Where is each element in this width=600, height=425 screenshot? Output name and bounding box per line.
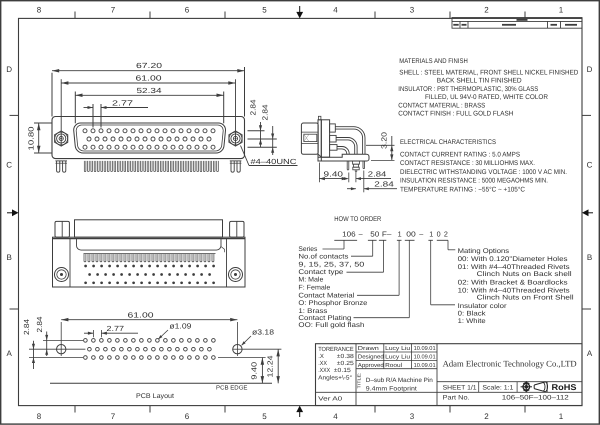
title cell divider	[356, 391, 437, 393]
rear view: pin tail dots row 1 (17)	[84, 265, 87, 268]
front view: left jackscrew #4-40	[55, 131, 68, 146]
svg-text:DIELECTRIC WITHSTANDING VOLT: DIELECTRIC WITHSTANDING VOLTAGE : 1000 V…	[400, 169, 567, 176]
svg-text:10: With #4–40Threaded Rive: 10: With #4–40Threaded Rivets	[458, 287, 571, 294]
svg-text:2.84: 2.84	[374, 180, 394, 189]
svg-text:2.77: 2.77	[112, 98, 133, 107]
rear view: right mounting screw	[229, 268, 243, 282]
svg-text:4: 4	[333, 5, 338, 14]
svg-text:M: Male: M: Male	[298, 277, 323, 284]
side view: clinch nut below board	[353, 161, 360, 164]
side view: insulator body	[321, 120, 329, 157]
front view: D-sub insert outer outline	[74, 123, 226, 153]
rear view: left mounting screw	[55, 268, 69, 282]
svg-text:Contact Material: Contact Material	[298, 293, 355, 300]
front view: contact holes row 1 (17)	[83, 129, 87, 133]
svg-text:MATERIALS AND FINISH: MATERIALS AND FINISH	[399, 58, 468, 65]
svg-text:Drawn: Drawn	[358, 346, 379, 352]
svg-text:6: 6	[185, 412, 190, 421]
svg-text:1: 1	[398, 230, 402, 239]
dim 2.84 rows1-2 (pcb)	[46, 332, 48, 357]
svg-text:6: 6	[185, 5, 190, 14]
svg-text:D–sub R/A Machine Pin: D–sub R/A Machine Pin	[366, 377, 434, 384]
svg-text:10.09.01: 10.09.01	[414, 362, 436, 369]
front view: right boardlock	[231, 161, 234, 172]
dim row extension lines (pcb left)	[43, 339, 83, 341]
svg-text:Adam Electronic Technology Co.: Adam Electronic Technology Co.,LTD	[443, 358, 577, 368]
front view: contact holes row 2 (16)	[87, 137, 91, 141]
names grid lines	[356, 351, 437, 353]
top margin column ticks	[74, 12, 76, 19]
svg-text:ø1.09: ø1.09	[169, 322, 191, 331]
order tree leader: contact plating	[405, 239, 415, 241]
svg-text:3: 3	[410, 5, 415, 14]
svg-text:Ver A0: Ver A0	[318, 396, 343, 403]
svg-text:FILLED, UL 94V-0 RATED, WHITE: FILLED, UL 94V-0 RATED, WHITE COLOR	[425, 94, 548, 101]
side view: bent pin row 2 (middle)	[336, 138, 357, 155]
title block column dividers	[355, 344, 357, 406]
svg-text:D: D	[587, 65, 593, 74]
pcb layout: left hole centerlines	[60, 322, 62, 356]
svg-text:OO: Full gold flash: OO: Full gold flash	[298, 322, 364, 329]
svg-text:10.80: 10.80	[26, 127, 35, 151]
pcb layout: left mounting hole 3.18	[57, 345, 66, 354]
svg-text:1: 1	[559, 412, 564, 421]
svg-text:D: D	[6, 65, 12, 74]
svg-text:5: 5	[262, 5, 267, 14]
svg-text:Clinch Nuts on Front Shell: Clinch Nuts on Front Shell	[477, 294, 575, 301]
pcb layout: right mounting hole 3.18	[233, 345, 242, 354]
side view: jackscrew nut in barrel	[304, 134, 317, 141]
svg-text:O: Phosphor Bronze: O: Phosphor Bronze	[298, 300, 367, 307]
svg-text:00: With 0.120"Diameter Hol: 00: With 0.120"Diameter Holes	[458, 256, 569, 263]
svg-text:F–: F–	[382, 230, 392, 239]
svg-text:67.20: 67.20	[136, 61, 162, 70]
svg-text:TITLE:: TITLE:	[357, 373, 362, 389]
svg-text:.XXX: .XXX	[318, 367, 330, 374]
svg-text:C: C	[6, 161, 12, 170]
svg-text:–: –	[359, 230, 363, 239]
svg-text:2.84: 2.84	[368, 169, 387, 178]
tolerance/ver divider	[316, 391, 357, 393]
svg-text:INSULATOR : PBT THERMOPLASTIC,: INSULATOR : PBT THERMOPLASTIC, 30% GLASS	[398, 86, 538, 93]
dim 52.34 extension lines	[74, 92, 76, 124]
svg-text:2: 2	[484, 5, 489, 14]
svg-text:2: 2	[444, 230, 448, 239]
centering arrow left	[7, 212, 14, 214]
rear view: flange ear dividers	[69, 239, 71, 287]
dim 3.20 extension lines	[366, 144, 395, 146]
svg-text:Angles+\-5°: Angles+\-5°	[318, 374, 353, 381]
svg-text:Scale: 1:1: Scale: 1:1	[482, 384, 513, 391]
svg-text:2.84: 2.84	[248, 100, 257, 116]
front view: contact holes row 3 (17)	[83, 145, 87, 149]
rear view: right jackscrew barrel	[230, 221, 244, 237]
svg-text:–: –	[419, 230, 423, 239]
dim 2.84 rows2-3 (pcb)	[33, 341, 35, 369]
dim 67.20 extension lines	[51, 73, 53, 117]
svg-text:CONTACT FINISH : FULL GOLD: CONTACT FINISH : FULL GOLD FLASH	[398, 111, 513, 118]
dim 9.40 (side view) extension line	[318, 163, 320, 183]
svg-text:50: 50	[370, 230, 379, 239]
rear view: insulator back	[75, 220, 223, 237]
order tree leader: contact type	[379, 239, 386, 241]
dim 67.20	[52, 70, 245, 72]
order tree leader: contact material	[397, 239, 402, 241]
front view: left boardlock	[57, 161, 60, 172]
rear view: pin tail dots row 2 (16)	[88, 273, 91, 276]
order tree leader: mating options	[437, 239, 448, 241]
svg-text:2.84: 2.84	[261, 105, 270, 121]
dim 2.84 row1-row2 extension lines	[248, 130, 265, 132]
rear view: left jackscrew barrel	[55, 221, 69, 237]
svg-text:ELECTRICAL CHARACTERISTICS: ELECTRICAL CHARACTERISTICS	[400, 139, 496, 146]
svg-text:F: Female: F: Female	[298, 285, 330, 292]
svg-text:±0.38: ±0.38	[337, 353, 355, 360]
dim 2.84 row2-row3	[272, 126, 274, 155]
bottom margin column ticks	[74, 406, 76, 413]
dim 3.20	[391, 136, 393, 160]
dim 61.00 (pcb)	[61, 319, 237, 321]
order tree leader: series	[334, 239, 357, 241]
svg-text:Lucy Liu: Lucy Liu	[385, 345, 410, 352]
svg-text:9.40: 9.40	[250, 362, 259, 380]
side view: flange top tab	[318, 116, 321, 120]
svg-text:SHEET 1/1: SHEET 1/1	[443, 384, 477, 391]
svg-text:106–50F–100–112: 106–50F–100–112	[502, 395, 569, 402]
svg-text:A: A	[7, 349, 13, 358]
svg-text:1: 1	[559, 5, 564, 14]
dim 2.84 pins 1-2 (side view)	[348, 173, 350, 183]
svg-text:PCB Layout: PCB Layout	[136, 393, 174, 400]
dim 2.77 (pcb) extension lines	[92, 330, 94, 337]
dim 9.40 (pcb)	[261, 358, 263, 384]
side view: shell flange plate	[318, 120, 321, 161]
svg-text:7: 7	[111, 5, 116, 14]
centering arrow bottom	[299, 410, 301, 417]
dim 2.84 pins 2-3 (side view)	[363, 171, 365, 193]
svg-text:#4–40UNC: #4–40UNC	[251, 157, 298, 166]
svg-text:1: 1	[429, 230, 433, 239]
rear view: shell back skirt	[76, 239, 221, 251]
svg-text:Part No.: Part No.	[443, 395, 470, 402]
svg-text:PCB EDGE: PCB EDGE	[216, 384, 248, 391]
svg-text:61.00: 61.00	[136, 74, 162, 83]
svg-text:4: 4	[333, 412, 338, 421]
svg-text:Clinch Nuts on Back shell: Clinch Nuts on Back shell	[477, 271, 573, 278]
projection symbol circle	[523, 384, 530, 391]
svg-text:3: 3	[410, 412, 415, 421]
side view: bent pin row 1 (top)	[335, 127, 365, 155]
svg-text:5: 5	[262, 412, 267, 421]
dim 2.77	[84, 107, 94, 109]
svg-text:10.09.01: 10.09.01	[414, 345, 436, 352]
svg-text:2.77: 2.77	[107, 324, 125, 333]
svg-text:No.of contacts: No.of contacts	[298, 254, 349, 261]
svg-text:1: White: 1: White	[458, 318, 486, 325]
dim 61.00 extension lines	[60, 79, 62, 146]
projection symbol cone	[534, 382, 545, 392]
svg-text:TORERANCE: TORERANCE	[318, 346, 354, 353]
svg-text:±0.15: ±0.15	[334, 367, 352, 374]
right margin row ticks	[582, 114, 591, 116]
pcb layout: hole row 2 (16)	[88, 347, 92, 351]
dim 10.80	[38, 123, 40, 153]
svg-text:00: 00	[406, 230, 416, 239]
centering arrow top	[299, 6, 301, 14]
dim 2.84 row2-row3 extension line	[248, 146, 277, 148]
svg-text:CONTACT RESISTANCE : 30 MI: CONTACT RESISTANCE : 30 MILLIOHMS MAX.	[400, 160, 535, 167]
dim 10.80 extension lines	[34, 122, 52, 124]
svg-text:BACK SHELL TIN FINISHED: BACK SHELL TIN FINISHED	[437, 78, 522, 85]
rear view: pin comb strip	[84, 253, 216, 255]
svg-text:01: With #4–40Threaded Rive: 01: With #4–40Threaded Rivets	[458, 264, 571, 271]
svg-text:106: 106	[342, 230, 356, 239]
svg-text:SHELL : STEEL MATERIAL, FRONT: SHELL : STEEL MATERIAL, FRONT SHELL NICK…	[399, 70, 578, 77]
pcb layout: right hole centerlines	[236, 322, 238, 356]
front view: right jackscrew #4-40	[229, 131, 242, 146]
svg-text:8: 8	[37, 412, 42, 421]
sheet row dividers	[437, 381, 582, 383]
svg-text:RoHS: RoHS	[552, 382, 577, 392]
dim 52.34	[75, 94, 223, 96]
pcb layout: hole row 1 (17)	[84, 339, 88, 343]
svg-text:9.40: 9.40	[324, 169, 344, 178]
svg-text:Approved: Approved	[358, 362, 384, 369]
pcb layout: PCB edge line	[50, 382, 272, 384]
svg-text:3.20: 3.20	[380, 132, 389, 149]
svg-text:ø3.18: ø3.18	[252, 327, 274, 336]
svg-text:B: B	[587, 253, 592, 262]
svg-text:7: 7	[111, 412, 116, 421]
side view: pin support step blocks	[330, 124, 336, 132]
svg-text:0: 0	[437, 230, 441, 239]
dim 12.24 (pcb) extension line	[244, 348, 282, 350]
svg-text:B: B	[7, 253, 12, 262]
svg-text:Series: Series	[298, 246, 318, 253]
svg-text:0: Black: 0: Black	[458, 311, 487, 318]
left margin row ticks	[10, 114, 19, 116]
svg-text:10.09.01: 10.09.01	[414, 354, 436, 361]
front view: D-sub insert inner outline	[76, 125, 223, 151]
svg-text:Rooul: Rooul	[385, 362, 402, 369]
svg-text:02: With Bracket & Boardlo: 02: With Bracket & Boardlocks	[458, 279, 569, 286]
rear view: shell flange plate	[53, 237, 246, 287]
dim 2.84 row1-row2	[260, 122, 262, 147]
svg-text:CONTACT MATERIAL : BRASS: CONTACT MATERIAL : BRASS	[398, 102, 485, 109]
side view: pin tail right below board	[363, 161, 365, 169]
dim 9.40 (pcb) extension line	[218, 357, 266, 359]
pcb layout: hole row 3 (17)	[84, 356, 88, 360]
dim 12.24 (pcb)	[277, 349, 279, 383]
svg-text:9.4mm Footprint: 9.4mm Footprint	[366, 385, 417, 392]
svg-text:61.00: 61.00	[128, 310, 154, 319]
side view: mounting base plate	[318, 154, 369, 161]
svg-text:Designed: Designed	[358, 354, 384, 361]
svg-text:.X: .X	[318, 353, 324, 360]
side view: pin tail left below board	[347, 161, 349, 170]
svg-text:INSULATION RESISTANCE : 500: INSULATION RESISTANCE : 5000 MEGAOHMS MI…	[400, 178, 548, 185]
svg-text:Mating Options: Mating Options	[458, 248, 510, 255]
svg-text:Insulator color: Insulator color	[458, 303, 508, 310]
svg-text:52.34: 52.34	[137, 86, 162, 95]
svg-text:Contact type: Contact type	[298, 269, 343, 276]
order tree leader: insulator color	[428, 239, 433, 241]
side view: bent pin row 3 (bottom)	[337, 147, 349, 155]
svg-text:1: Brass: 1: Brass	[298, 308, 328, 315]
front view: connector shell flange	[52, 117, 245, 159]
svg-text:12.24: 12.24	[266, 356, 275, 378]
svg-text:HOW TO ORDER: HOW TO ORDER	[334, 216, 381, 223]
svg-text:2.84: 2.84	[35, 317, 44, 333]
side view: flange bottom foot	[318, 154, 321, 157]
centering arrow right	[586, 212, 593, 214]
side view: barrel mating face lines	[301, 131, 318, 133]
side view: front shell barrel	[301, 123, 318, 154]
revision history strip	[452, 18, 582, 29]
svg-text:±0.25: ±0.25	[337, 360, 355, 367]
front view: machine pin tails comb	[84, 161, 86, 172]
order tree leader: no of contacts	[368, 239, 377, 241]
svg-text:2: 2	[484, 412, 489, 421]
svg-text:C: C	[587, 161, 593, 170]
label #4-40UNC with leader	[241, 146, 250, 166]
dim 2.77 (pcb)	[84, 332, 93, 334]
svg-text:.XX: .XX	[318, 360, 327, 367]
svg-text:2.84: 2.84	[22, 319, 31, 335]
svg-text:9, 15, 25, 37, 50: 9, 15, 25, 37, 50	[298, 261, 364, 268]
rear view: pin tail dots row 3 (17)	[84, 281, 87, 284]
dim 61.00	[61, 82, 235, 84]
title block outer box	[316, 344, 583, 406]
svg-text:8: 8	[37, 5, 42, 14]
svg-text:A: A	[587, 349, 593, 358]
dim 9.40 (side view)	[319, 178, 347, 180]
dim 2.77 extension lines	[92, 104, 94, 128]
svg-text:TEMPERATURE RATING : −55°C: TEMPERATURE RATING : −55°C ~ +105°C	[400, 187, 525, 194]
svg-text:Lucy Liu: Lucy Liu	[385, 354, 410, 361]
svg-text:CONTACT CURRENT RATING : 5: CONTACT CURRENT RATING : 5.0 AMPS	[400, 151, 520, 158]
